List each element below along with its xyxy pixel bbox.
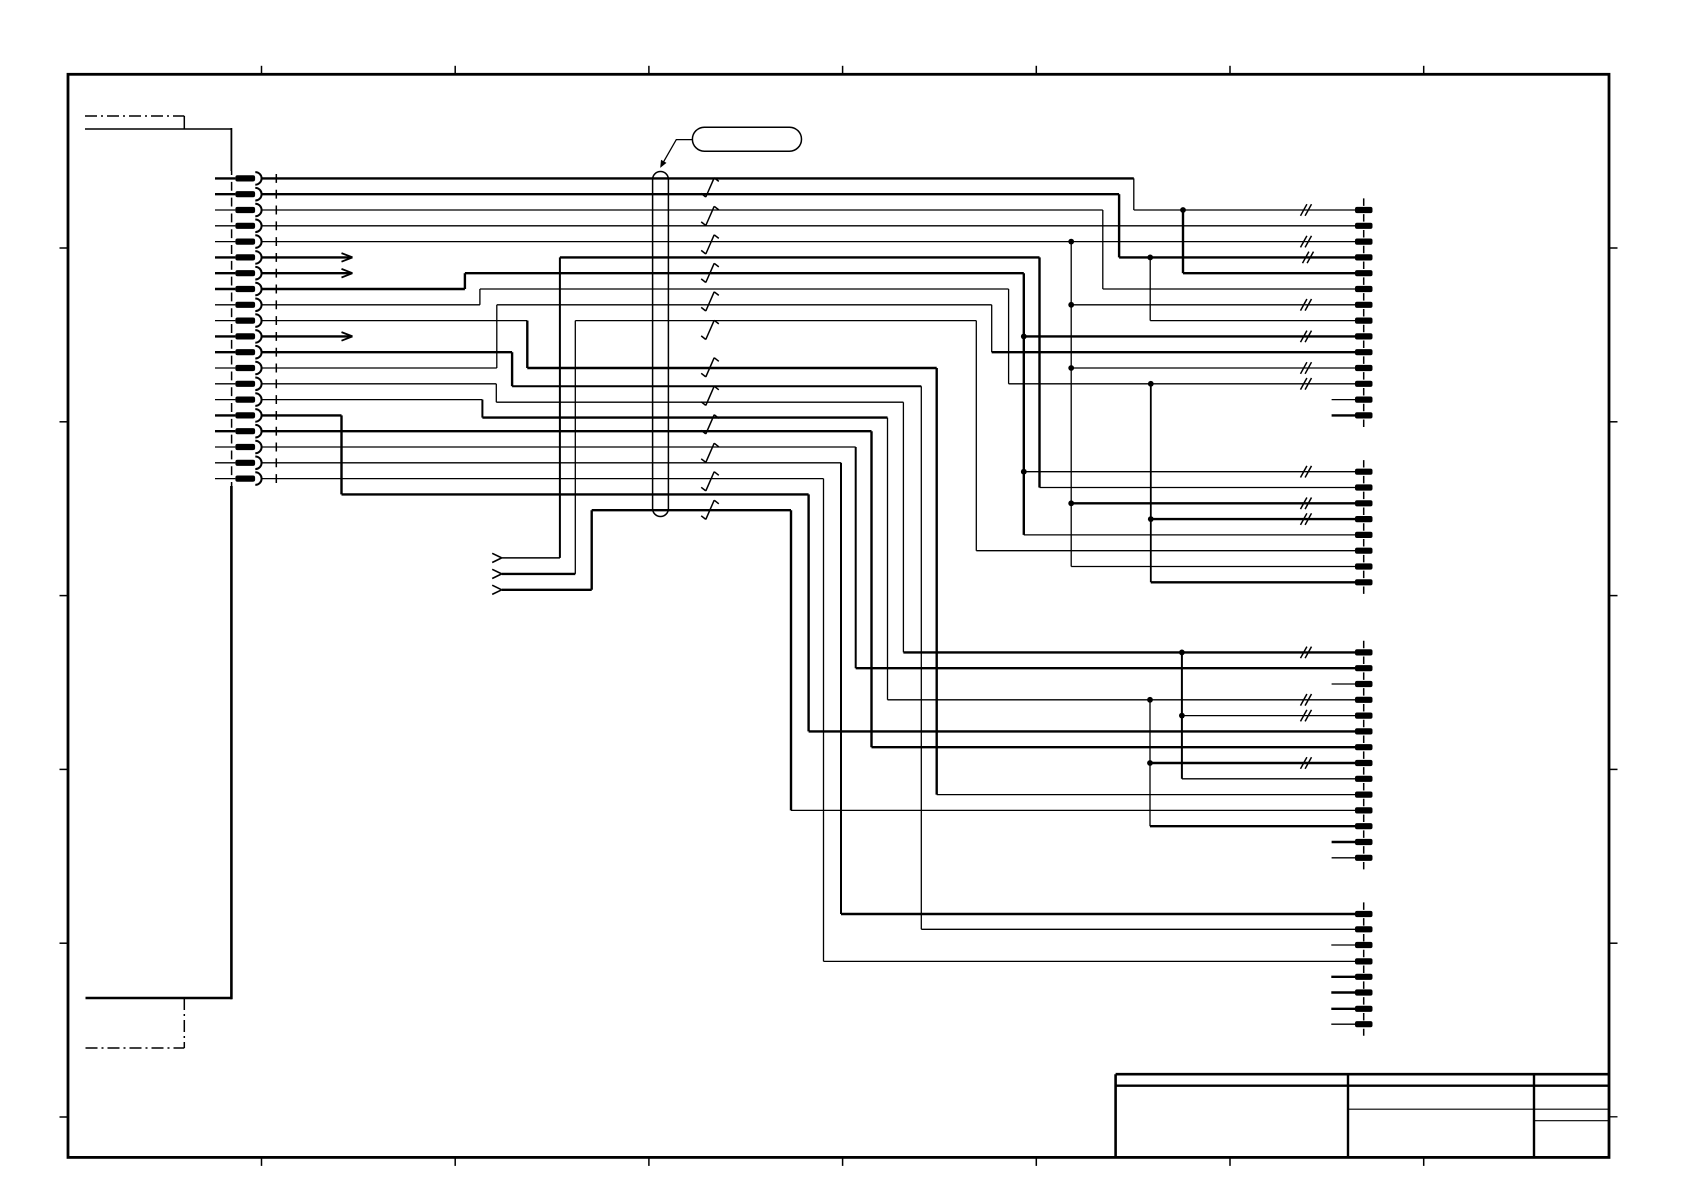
wire net p14 (pin14 to C1/C5/C9): [262, 384, 1355, 779]
pin J1-8: [215, 283, 262, 296]
wire net p2 (pin2 to A4/A8): [262, 194, 1355, 320]
pin J1-12: [215, 346, 262, 359]
twisted-pair slash marks lower: [701, 358, 719, 520]
wire net p17 (pin17 to C7): [262, 431, 1355, 747]
connector J1 left edge lower: [230, 486, 233, 999]
pin J1-3: [215, 204, 262, 217]
connector J1 boundary dash-dot bottom: [86, 998, 185, 1048]
connector J1 boundary dash-dot top: [85, 116, 184, 129]
wire stub C3: [1332, 683, 1355, 685]
pin J1-15: [215, 393, 262, 406]
wire net p7 (pin7 to off-page arrow): [262, 269, 353, 278]
wire net p11 (pin11 to off-page arrow): [262, 332, 353, 341]
wire net input-arrow-1 (to B2): [492, 257, 1355, 562]
wire stub D7: [1331, 1008, 1355, 1010]
pin J1-17: [215, 425, 262, 438]
wire net p1 (pin1 to A1/A5): [262, 178, 1355, 273]
terminal strip D: [1355, 902, 1373, 1035]
wire net p10 (pin10 to C10): [262, 321, 1355, 795]
pin J1-4: [215, 220, 262, 233]
wire stub D3: [1331, 944, 1355, 946]
title block: [1116, 1074, 1618, 1157]
pin J1-13: [215, 362, 262, 375]
pin J1-2: [215, 188, 262, 201]
pin J1-20: [215, 472, 262, 485]
wire net p8 (pin8 to A9/B1/B5): [262, 273, 1355, 535]
wire stub D6: [1331, 991, 1355, 993]
wire net p6 (pin6 to off-page arrow): [262, 253, 353, 262]
cable bundle oval W1: [653, 172, 669, 517]
twisted-pair slash marks upper: [701, 178, 719, 340]
wire net p15 (pin15 to C4/C8/C12): [262, 400, 1355, 827]
connector J1 face dashed line: [231, 171, 233, 486]
wire net p20 (pin20 to D4): [262, 479, 1355, 962]
wire net p18 (pin18 to C2): [262, 447, 1355, 668]
wire stub C13: [1332, 841, 1355, 843]
pin J1-16: [215, 409, 262, 422]
pin J1-14: [215, 378, 262, 391]
connector J1 bottom edge: [86, 997, 233, 1000]
wire net p3 (pin3 to A6): [262, 210, 1355, 289]
terminal strip A: [1355, 198, 1373, 427]
wire stub D8: [1331, 1023, 1355, 1025]
wire net input-arrow-3 (to C11): [492, 510, 1355, 810]
wire stub D5: [1331, 976, 1355, 978]
wire net p16 (pin16 to C6): [262, 415, 1355, 731]
callout label balloon: [660, 127, 801, 168]
wire net p19 (pin19 to D1): [262, 463, 1355, 914]
wire stub A14: [1332, 414, 1355, 416]
wire net p5 (pin5 to A3/A7/A11/B3/B7): [262, 236, 1355, 567]
wire stub C14: [1332, 857, 1355, 859]
pin J1-7: [215, 267, 262, 280]
connector J1 pin-side dashed line: [275, 171, 277, 486]
wire net input-arrow-2 (to B6): [492, 321, 1355, 579]
pin J1-18: [215, 441, 262, 454]
wire stub A13: [1332, 399, 1355, 401]
pin J1-11: [215, 330, 262, 343]
pin J1-10: [215, 314, 262, 327]
pin J1-6: [215, 251, 262, 264]
wire net p9 (pin9 to A12/B4/B8): [262, 289, 1355, 582]
pin J1-19: [215, 457, 262, 470]
pin J1-5: [215, 235, 262, 248]
wire net p12 (pin12 to D2): [262, 352, 1355, 929]
terminal strip B: [1355, 460, 1373, 594]
wire net p4 (pin4 to A2): [262, 225, 1355, 227]
pin J1-9: [215, 299, 262, 312]
pin J1-1: [215, 172, 262, 185]
connector J1 top edge: [85, 128, 231, 130]
terminal strip C: [1355, 641, 1373, 870]
wire net p13 (pin13 to A10): [262, 305, 1355, 368]
connector J1 left edge upper: [230, 128, 232, 171]
